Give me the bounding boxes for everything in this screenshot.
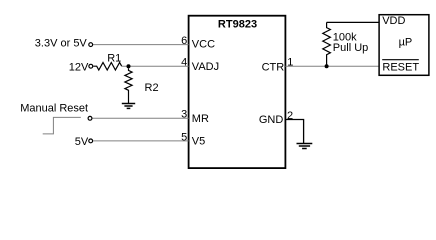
- svg-text:3: 3: [181, 109, 187, 121]
- IC U1 body RT9823: [189, 16, 286, 168]
- svg-text:VADJ: VADJ: [192, 61, 219, 73]
- resistor 100k pull-up: [323, 22, 331, 66]
- wire GND (pin 2 to ground): [285, 120, 303, 144]
- junction node CTR: [325, 64, 329, 68]
- svg-text:µP: µP: [399, 36, 413, 48]
- svg-text:12V: 12V: [69, 61, 89, 73]
- resistor R2: [125, 68, 132, 103]
- terminal MR: [88, 116, 92, 120]
- wire MR (pin 3 to terminal): [93, 117, 189, 119]
- ground for GND pin: [297, 144, 313, 149]
- microprocessor U2 body: [379, 15, 429, 76]
- svg-text:6: 6: [181, 35, 187, 47]
- svg-text:4: 4: [181, 57, 187, 69]
- svg-text:RT9823: RT9823: [218, 19, 257, 31]
- svg-text:3.3V or 5V: 3.3V or 5V: [35, 38, 88, 50]
- terminal 12V: [89, 64, 93, 68]
- wire VADJ (R1 to pin 4): [122, 65, 189, 67]
- resistor R1: [93, 63, 122, 71]
- wire pull-up top (to VDD): [327, 21, 380, 23]
- svg-text:R1: R1: [107, 53, 121, 65]
- junction node VADJ: [127, 64, 131, 68]
- wire V5 (pin 5 to terminal): [93, 140, 189, 142]
- wire CTR (pin 1 to microprocessor RESET): [285, 65, 379, 67]
- svg-text:V5: V5: [192, 136, 205, 148]
- waveform rising edge symbol: [43, 117, 81, 133]
- svg-text:VDD: VDD: [382, 15, 405, 27]
- terminal 5V: [89, 139, 93, 143]
- svg-text:RESET: RESET: [382, 62, 419, 74]
- svg-text:R2: R2: [145, 82, 159, 94]
- svg-text:Manual Reset: Manual Reset: [20, 102, 88, 114]
- svg-text:5V: 5V: [75, 136, 89, 148]
- svg-text:CTR: CTR: [262, 61, 285, 73]
- svg-text:5: 5: [181, 131, 187, 143]
- terminal 3.3V or 5V: [89, 43, 93, 47]
- svg-text:1: 1: [287, 57, 293, 69]
- ground for R2: [122, 104, 135, 109]
- svg-text:Pull Up: Pull Up: [333, 42, 368, 54]
- RESET overline: [382, 59, 419, 61]
- wire VCC (pin 6 to terminal): [93, 44, 189, 46]
- svg-text:MR: MR: [192, 113, 209, 125]
- svg-text:GND: GND: [259, 114, 284, 126]
- svg-text:VCC: VCC: [192, 39, 215, 51]
